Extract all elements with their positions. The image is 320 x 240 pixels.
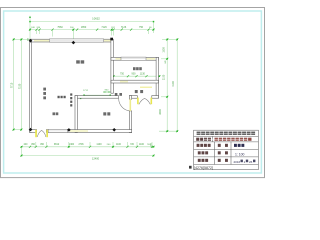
svg-text:750: 750 [120,73,125,76]
svg-text:2400: 2400 [69,144,75,146]
svg-text:2800: 2800 [159,109,162,115]
svg-text:7100: 7100 [18,83,21,89]
svg-text:1500: 1500 [163,47,166,53]
svg-text:1100: 1100 [116,144,122,146]
svg-text:[4276]5872]: [4276]5872] [194,166,213,170]
svg-text:1100: 1100 [139,144,145,146]
svg-text:7126: 7126 [121,26,127,29]
svg-text:2706: 2706 [78,144,84,146]
svg-text:10632: 10632 [92,16,100,20]
svg-text:1: 100: 1: 100 [235,152,245,156]
svg-text:1850: 1850 [81,26,87,29]
svg-text:7560: 7560 [57,26,63,29]
svg-text:900: 900 [132,73,137,76]
svg-text:1712: 1712 [83,90,89,92]
svg-text:7126: 7126 [101,26,107,29]
svg-text:7710: 7710 [11,82,14,88]
svg-text:2016: 2016 [234,160,241,164]
svg-text:3812: 3812 [54,143,60,146]
svg-text:4100: 4100 [172,81,175,87]
svg-text:12400: 12400 [92,156,100,160]
svg-text:26: 26 [249,160,253,164]
svg-text:1100: 1100 [96,143,102,146]
svg-text:1130: 1130 [140,73,146,76]
svg-text:2100: 2100 [163,74,166,80]
svg-text:756: 756 [139,26,144,29]
